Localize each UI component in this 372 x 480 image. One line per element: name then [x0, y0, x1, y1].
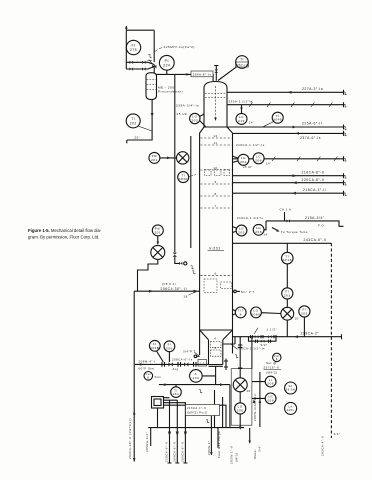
svg-text:(F8 # 2): (F8 # 2) — [162, 282, 176, 286]
svg-text:204: 204 — [193, 376, 200, 380]
svg-text:261: 261 — [173, 392, 180, 396]
svg-text:3/4″: 3/4″ — [258, 445, 262, 452]
svg-text:7: 7 — [214, 204, 216, 208]
svg-text:(M9*2) PurG: (M9*2) PurG — [187, 410, 208, 414]
svg-text:Set @: Set @ — [266, 361, 277, 365]
svg-text:14′: 14′ — [266, 161, 271, 165]
svg-text:208M-4″-I: 208M-4″-I — [139, 360, 156, 364]
svg-text:224: 224 — [163, 63, 170, 67]
svg-text:206L: 206L — [287, 408, 295, 412]
svg-text:(M4*2): (M4*2) — [266, 370, 278, 374]
svg-text:3040: 3040 — [179, 177, 188, 181]
svg-text:20′: 20′ — [135, 136, 140, 140]
svg-text:209W-3/4209W-3/4″#8243;: 209W-3/4209W-3/4″#8243; — [253, 393, 257, 421]
svg-text:60°F Stm: 60°F Stm — [139, 367, 155, 371]
svg-text:6: 6 — [214, 271, 216, 275]
svg-text:202CA-4″-II: 202CA-4″-II — [321, 435, 325, 456]
svg-text:243CA-6″-II: 243CA-6″-II — [304, 238, 327, 242]
svg-text:25 UF: 25 UF — [177, 112, 188, 116]
svg-text:282W-1″-II: 282W-1″-II — [230, 445, 234, 464]
svg-text:205: 205 — [238, 231, 245, 235]
svg-text:8: 8 — [240, 312, 242, 316]
svg-text:204: 204 — [255, 158, 262, 162]
svg-text:3: 3 — [214, 346, 216, 350]
svg-text:216CA-1 1/2″Is: 216CA-1 1/2″Is — [237, 216, 264, 220]
svg-text:F.O.: F.O. — [318, 224, 326, 228]
svg-text:220CA-8″-II: 220CA-8″-II — [302, 178, 325, 182]
svg-text:14′: 14′ — [249, 121, 254, 125]
svg-text:9A: 9A — [288, 384, 292, 388]
svg-text:237A-6″-Is: 237A-6″-Is — [300, 136, 321, 140]
svg-text:206V: 206V — [251, 312, 261, 316]
svg-text:225MH³-1s(Fa*2): 225MH³-1s(Fa*2) — [164, 45, 195, 49]
svg-text:239A-3/4″-Is: 239A-3/4″-Is — [176, 103, 199, 107]
svg-text:206CA-6″-II: 206CA-6″-II — [181, 441, 185, 462]
svg-text:208: 208 — [255, 230, 262, 234]
svg-text:209W-1″: 209W-1″ — [207, 440, 211, 455]
svg-text:218CA-6″-II: 218CA-6″-II — [165, 441, 169, 462]
svg-text:CA 1 A: CA 1 A — [280, 208, 292, 212]
svg-text:264A-8″-Is: 264A-8″-Is — [193, 72, 212, 76]
svg-text:9: 9 — [214, 180, 216, 184]
svg-text:25716″-II: 25716″-II — [264, 366, 280, 370]
svg-text:206: 206 — [267, 382, 274, 386]
svg-text:4: 4 — [214, 337, 216, 341]
svg-text:Figure 1-5. Mechanical detail: Figure 1-5. Mechanical detail flow dia- — [28, 228, 102, 233]
svg-text:218CA-2″: 218CA-2″ — [301, 332, 320, 336]
svg-text:1 2: 1 2 — [200, 362, 205, 366]
svg-text:3/4″: 3/4″ — [334, 432, 341, 436]
svg-text:216CA-1″-II: 216CA-1″-II — [187, 406, 206, 410]
svg-text:216CA-8″-II: 216CA-8″-II — [302, 170, 325, 174]
svg-text:V-201: V-201 — [209, 246, 221, 250]
svg-text:To Torque Tube: To Torque Tube — [281, 230, 308, 234]
svg-text:12: 12 — [213, 134, 217, 138]
svg-text:205Ew-3/4″: 205Ew-3/4″ — [145, 432, 149, 452]
svg-text:3046: 3046 — [273, 118, 282, 122]
svg-text:206C4-30″- II: 206C4-30″- II — [161, 287, 188, 291]
svg-text:203: 203 — [284, 293, 291, 297]
svg-text:LA: LA — [288, 405, 292, 409]
svg-text:225A-6″-II: 225A-6″-II — [302, 122, 322, 126]
svg-text:(M*2): (M*2) — [235, 452, 239, 462]
svg-text:25 M′: 25 M′ — [243, 165, 252, 169]
svg-text:219: 219 — [238, 119, 245, 123]
svg-text:8¾″ P.T.: 8¾″ P.T. — [241, 290, 255, 294]
svg-text:275: 275 — [130, 48, 137, 52]
svg-text:204B: 204B — [150, 346, 159, 350]
svg-text:202CA-30″-II (1W*6(L)): 202CA-30″-II (1W*6(L)) — [128, 418, 132, 459]
svg-text:202: 202 — [130, 121, 137, 125]
svg-text:206: 206 — [166, 346, 173, 350]
svg-text:18′: 18′ — [184, 294, 189, 298]
svg-text:11: 11 — [213, 141, 217, 145]
svg-text:10′: 10′ — [247, 389, 252, 393]
svg-text:TI: TI — [240, 58, 244, 62]
svg-text:216CA-1 1/2″-Is: 216CA-1 1/2″-Is — [236, 143, 265, 147]
svg-text:1 1/2″: 1 1/2″ — [267, 327, 277, 331]
svg-text:215A-3/4″: 215A-3/4″ — [305, 216, 325, 220]
svg-text:Stm: Stm — [155, 375, 162, 379]
svg-text:8: 8 — [147, 375, 149, 379]
svg-text:257-II: 257-II — [237, 63, 247, 67]
svg-text:204CA-6″-II: 204CA-6″-II — [173, 441, 177, 462]
svg-text:230A-1 1/2″Ia: 230A-1 1/2″Ia — [229, 100, 253, 104]
svg-text:208CA-6″-Is: 208CA-6″-Is — [172, 357, 193, 361]
svg-text:203: 203 — [191, 119, 198, 123]
svg-text:203: 203 — [301, 311, 308, 315]
svg-text:Avg: Avg — [173, 367, 179, 371]
svg-text:Water: Water — [253, 449, 257, 459]
svg-text:10′: 10′ — [295, 317, 300, 321]
svg-text:4F18: 4F18 — [283, 258, 292, 262]
svg-text:Precondenser: Precondenser — [158, 90, 183, 94]
svg-text:204: 204 — [240, 160, 247, 164]
svg-text:8: 8 — [214, 192, 216, 196]
svg-text:206: 206 — [237, 408, 244, 412]
svg-text:14′: 14′ — [264, 233, 269, 237]
svg-text:PI: PI — [165, 59, 169, 63]
svg-text:227A-3″-Ia: 227A-3″-Ia — [302, 87, 323, 91]
svg-text:206: 206 — [267, 398, 274, 402]
svg-text:218CA-3″-II: 218CA-3″-II — [303, 188, 326, 192]
svg-text:201: 201 — [151, 158, 158, 162]
svg-text:3/4″P.T.: 3/4″P.T. — [183, 350, 197, 354]
svg-text:29-5H: 29-5H — [286, 388, 296, 392]
svg-text:201: 201 — [154, 230, 161, 234]
svg-text:gram. By permission, Fluor Cor: gram. By permission, Fluor Corp. Ltd. — [28, 234, 99, 239]
